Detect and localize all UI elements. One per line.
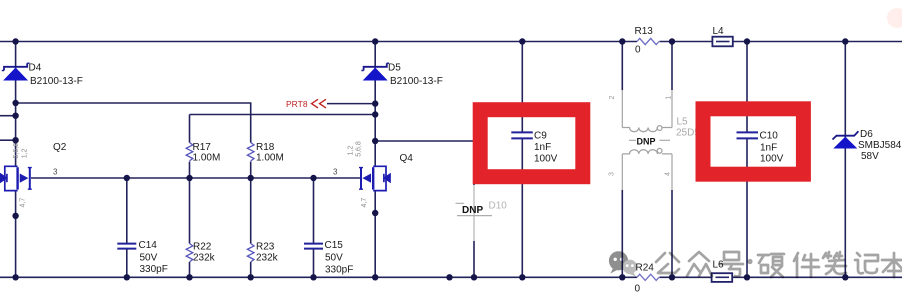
wire D10 bottom lead xyxy=(473,241,475,277)
svg-text:B2100-13-F: B2100-13-F xyxy=(390,76,443,87)
svg-text:3: 3 xyxy=(53,168,58,177)
wire C9 column xyxy=(521,42,523,278)
inductor L4 xyxy=(712,26,732,46)
svg-text:L5: L5 xyxy=(677,117,689,128)
node gate bus junctions xyxy=(124,175,130,181)
wire C15 leads xyxy=(313,178,315,277)
svg-text:5,6,8: 5,6,8 xyxy=(356,141,363,157)
wire A: D4 anode to R18 top xyxy=(16,103,251,143)
svg-text:L4: L4 xyxy=(713,26,725,37)
red highlight box C10 xyxy=(703,109,803,174)
svg-text:50V: 50V xyxy=(140,253,158,264)
wire B: R17 top to D5 column xyxy=(190,115,376,143)
svg-text:1: 1 xyxy=(666,95,673,99)
svg-text:4,7: 4,7 xyxy=(20,198,27,208)
svg-text:330pF: 330pF xyxy=(140,264,168,275)
watermark char zhong xyxy=(687,252,712,276)
wire stub left edge upper xyxy=(0,115,16,117)
resistor R13 0 xyxy=(635,26,659,56)
svg-text:R24: R24 xyxy=(636,263,655,274)
svg-text:330pF: 330pF xyxy=(325,265,353,276)
node D5 column junctions xyxy=(372,100,378,106)
svg-text:DNP: DNP xyxy=(637,137,656,147)
watermark logo and text xyxy=(609,251,902,277)
wire bottom bus xyxy=(0,276,902,278)
svg-text:R23: R23 xyxy=(256,242,275,253)
svg-text:R13: R13 xyxy=(635,26,654,37)
svg-text:4,7: 4,7 xyxy=(361,198,368,208)
watermark middle dot xyxy=(747,259,752,264)
resistor R17 1.00M xyxy=(186,142,220,164)
transformer L5 (DNP, greyed) xyxy=(622,126,672,154)
svg-text:B2100-13-F: B2100-13-F xyxy=(30,76,83,87)
resistor R18 1.00M xyxy=(247,142,283,164)
svg-text:1nF: 1nF xyxy=(534,142,551,153)
resistor R22 232k xyxy=(186,242,215,264)
wire R18/R23 column leads xyxy=(250,162,252,278)
svg-text:C9: C9 xyxy=(534,131,547,142)
wire R17/R22 column leads xyxy=(189,162,191,278)
DNP label for D10 xyxy=(456,203,493,216)
watermark char ying xyxy=(758,254,784,277)
svg-text:1.00M: 1.00M xyxy=(193,153,221,164)
svg-text:0: 0 xyxy=(635,45,641,56)
wire D6 column xyxy=(844,42,846,278)
zener diode D6 SMBJ58 xyxy=(833,129,902,162)
watermark char bi xyxy=(823,252,846,274)
svg-text:1,2: 1,2 xyxy=(22,148,29,158)
diode D5 B2100-13-F xyxy=(361,63,442,88)
wire D5/Q4 column xyxy=(374,42,376,278)
svg-text:58V: 58V xyxy=(861,151,879,162)
svg-text:232k: 232k xyxy=(193,253,216,264)
svg-text:1nF: 1nF xyxy=(760,143,777,154)
wire gate bus node 3 xyxy=(31,177,361,179)
svg-text:100V: 100V xyxy=(760,154,784,165)
transistor Q2 (P-MOSFET) xyxy=(1,166,32,190)
inductor L6 xyxy=(712,260,733,282)
svg-text:PRT8: PRT8 xyxy=(286,99,308,109)
wire L5 left rail xyxy=(621,42,623,91)
watermark char gong xyxy=(656,253,679,273)
node top bus junctions xyxy=(12,38,18,44)
svg-text:2: 2 xyxy=(609,95,616,99)
red highlight box C9 xyxy=(480,110,583,177)
svg-text:D5: D5 xyxy=(388,63,401,74)
svg-text:D6: D6 xyxy=(860,129,873,140)
transistor Q4 (P-MOSFET, mirrored) xyxy=(359,166,390,190)
svg-text:232k: 232k xyxy=(256,253,279,264)
svg-text:4: 4 xyxy=(665,172,672,176)
svg-text:C15: C15 xyxy=(325,240,344,251)
watermark char ji xyxy=(855,253,878,273)
wire C10 column xyxy=(746,42,748,278)
wire stub left edge lower xyxy=(0,139,16,141)
svg-text:C10: C10 xyxy=(760,131,779,142)
diode D4 B2100-13-F xyxy=(2,63,83,88)
svg-text:50V: 50V xyxy=(325,253,343,264)
L5 DNP label xyxy=(629,137,670,147)
svg-text:0: 0 xyxy=(635,284,641,295)
svg-text:1.00M: 1.00M xyxy=(256,153,284,164)
PRT8 net label xyxy=(286,99,375,109)
svg-text:R18: R18 xyxy=(256,142,275,153)
wire left column (D4/Q2 branch) xyxy=(15,42,17,278)
svg-text:D4: D4 xyxy=(29,63,42,74)
svg-text:D10: D10 xyxy=(489,201,508,212)
svg-text:1,2: 1,2 xyxy=(348,146,355,156)
wire top bus xyxy=(0,41,902,43)
watermark char hao xyxy=(720,252,743,276)
svg-text:5,6,8: 5,6,8 xyxy=(13,143,20,159)
svg-text:R22: R22 xyxy=(193,242,212,253)
svg-text:3: 3 xyxy=(333,168,338,177)
svg-text:3: 3 xyxy=(609,172,616,176)
svg-text:DNP: DNP xyxy=(462,205,483,216)
wire D10 ghost column (DNP grey) xyxy=(473,185,475,241)
node bottom bus junctions xyxy=(12,274,18,280)
capacitor C15 50V 330pF xyxy=(304,240,353,276)
capacitor C9 1nF 100V xyxy=(511,131,557,165)
resistor R24 0 xyxy=(635,263,659,295)
svg-text:100V: 100V xyxy=(534,154,558,165)
svg-text:SMBJ584: SMBJ584 xyxy=(858,140,902,151)
capacitor C10 1nF 100V xyxy=(737,131,784,165)
wire Q4 drain to D10 xyxy=(375,141,474,185)
resistor R23 232k xyxy=(247,242,278,264)
svg-text:Q2: Q2 xyxy=(53,142,67,153)
watermark char ben xyxy=(882,253,902,277)
svg-text:C14: C14 xyxy=(139,240,158,251)
capacitor C14 50V 330pF xyxy=(117,240,168,275)
wire C14 leads xyxy=(126,178,128,277)
node left column junctions xyxy=(12,100,18,106)
wire L5 right rail xyxy=(671,42,673,91)
svg-text:Q4: Q4 xyxy=(400,153,414,164)
svg-text:R17: R17 xyxy=(193,142,212,153)
watermark char jian xyxy=(794,253,819,277)
faint corner artifact xyxy=(887,8,902,28)
